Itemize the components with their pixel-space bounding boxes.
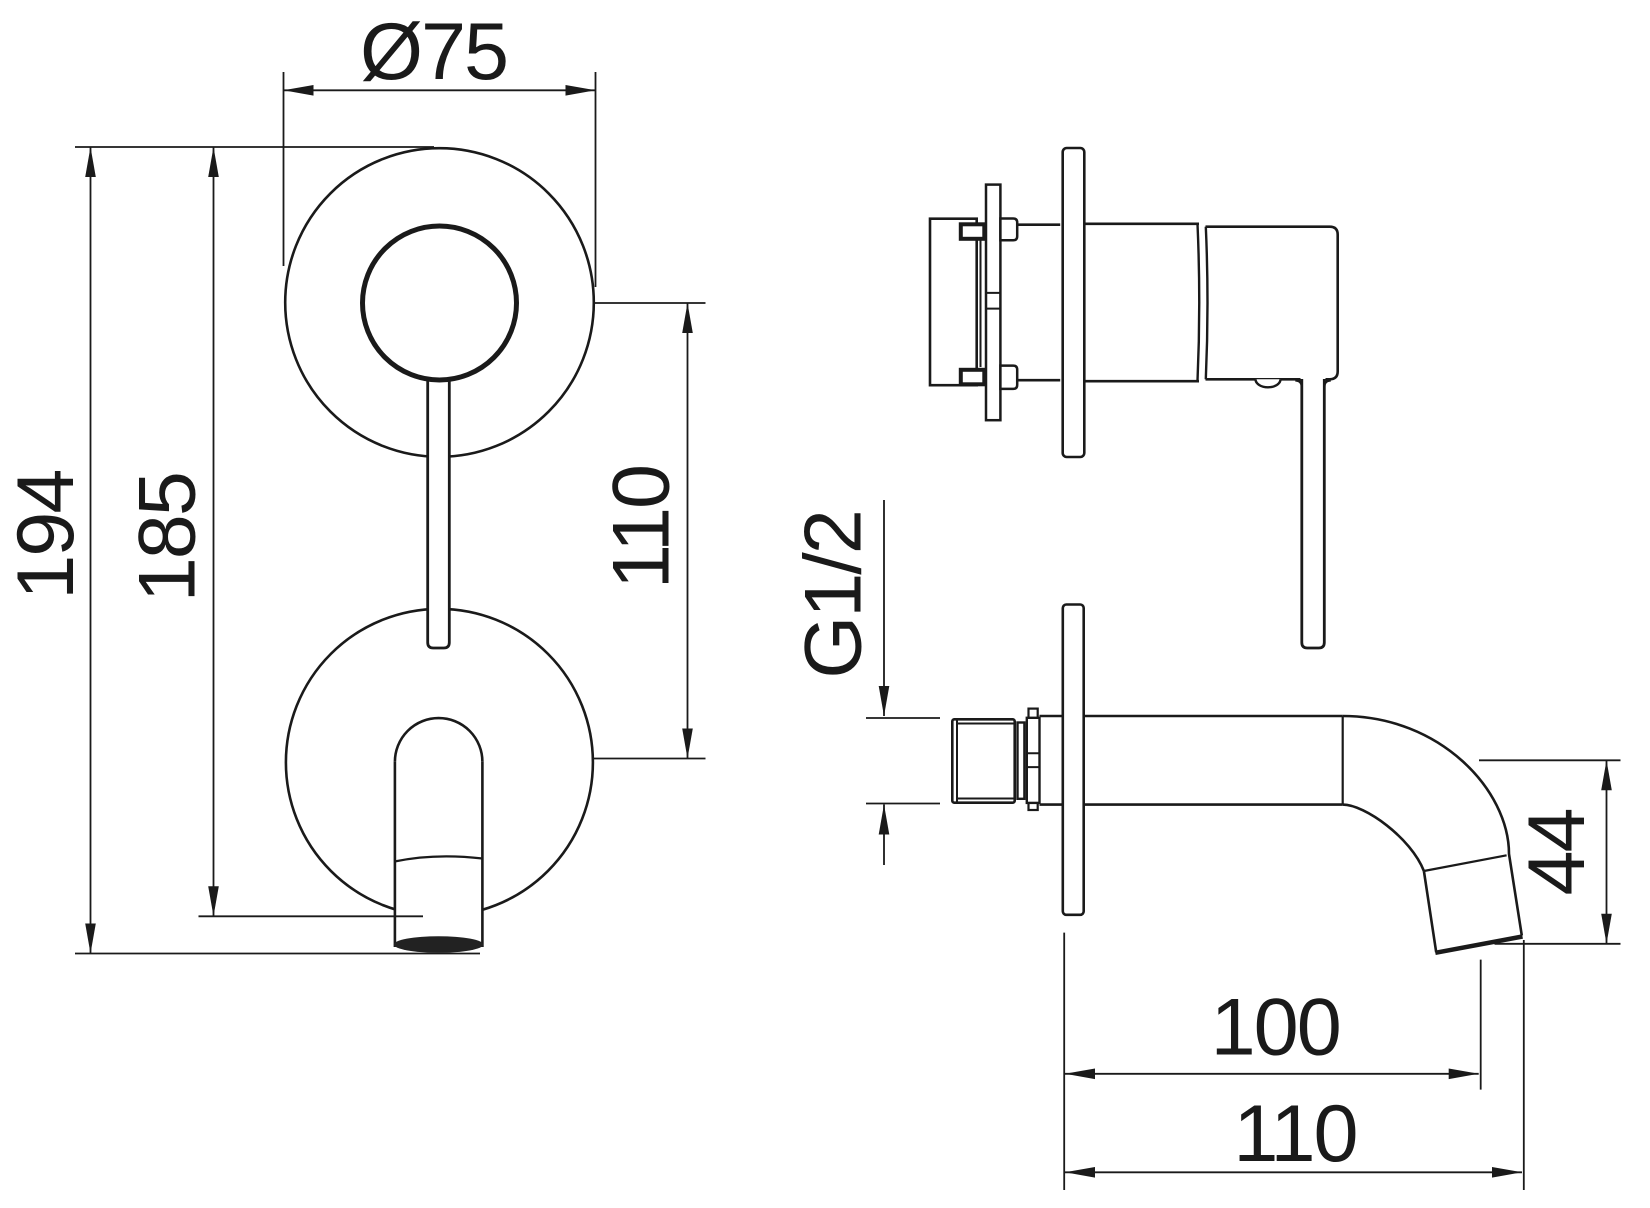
svg-text:185: 185 [122,473,212,602]
svg-text:Ø75: Ø75 [360,7,507,97]
svg-text:110: 110 [597,466,687,589]
svg-text:44: 44 [1512,809,1602,895]
svg-text:100: 100 [1211,983,1340,1073]
svg-text:110: 110 [1233,1089,1356,1179]
svg-text:194: 194 [1,471,91,600]
svg-text:G1/2: G1/2 [789,511,879,679]
